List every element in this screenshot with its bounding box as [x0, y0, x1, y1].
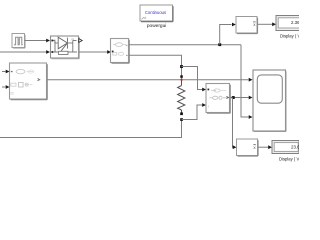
svg-text:2.362: 2.362 — [291, 20, 299, 25]
svg-text:Continuous: Continuous — [145, 10, 166, 15]
scope SC1 — [253, 70, 286, 132]
node J4 — [180, 112, 183, 115]
wire W1 pulse generator to gate — [25, 39, 51, 43]
svg-text:Display ( V: Display ( V — [280, 33, 299, 38]
node J2 — [180, 65, 183, 68]
mean block M1 — [236, 17, 258, 34]
wire W4 converter k output to subsystem2 — [79, 50, 111, 54]
node J5 — [180, 118, 183, 121]
powergui block — [140, 5, 173, 29]
svg-text:m: m — [71, 38, 74, 42]
m output hollow arrow — [79, 39, 82, 43]
resistor R1 — [178, 80, 185, 114]
measurement subsystem S3 — [206, 84, 230, 114]
thyristor triangle — [58, 37, 67, 49]
right bus — [72, 41, 74, 53]
node J3 — [180, 75, 183, 78]
wire W8 S2 out2 to resistor node — [129, 55, 181, 79]
svg-text:Display ( V: Display ( V — [279, 156, 299, 161]
thyristor converter U1 — [51, 36, 83, 59]
wire W6 junction up to mean1 — [220, 23, 236, 45]
svg-text:g: g — [54, 39, 56, 43]
wire W2 left edge to converter anode — [0, 50, 50, 54]
svg-text:23.61: 23.61 — [291, 145, 299, 150]
wire W5 S2 out1 to vertical — [129, 44, 241, 46]
wire W12 resistor bottom to measurement input2 — [182, 103, 207, 119]
input port arrows — [2, 71, 6, 73]
thumbnail row1 — [11, 71, 13, 72]
node J6 — [232, 96, 235, 99]
wire W10 rail from S1 output to scope input1 — [47, 78, 252, 82]
wire W15 J6 down to mean2 — [233, 98, 237, 150]
thumbnail row2 — [11, 83, 16, 86]
wire W17 mean2 to display2 — [258, 145, 272, 149]
wire W7 mean1 to display1 — [258, 22, 277, 26]
wire W14 measurement out to scope input2 — [230, 96, 252, 100]
pulse generator PG1 — [12, 34, 25, 49]
subsystem S1 source — [2, 63, 47, 100]
display D2 — [272, 141, 303, 162]
wire W9 J2 to measurement input1 — [182, 67, 207, 92]
left bus — [54, 41, 56, 53]
wire W13 bottom rail from resistor bottom to left edge — [0, 120, 182, 138]
svg-text:powergui: powergui — [147, 23, 166, 29]
node N1 red — [181, 79, 183, 81]
node J1 — [218, 43, 221, 46]
snubber box — [59, 51, 69, 54]
subsystem S2 firing/measure — [111, 39, 130, 64]
input port squares — [51, 40, 53, 42]
display D1 — [276, 16, 303, 39]
wire W16 junction down to scope input3 — [241, 45, 253, 119]
mean block M2 — [237, 139, 259, 156]
